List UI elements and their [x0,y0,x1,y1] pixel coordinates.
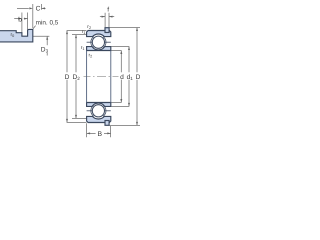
svg-text:D: D [136,74,140,81]
svg-text:D3: D3 [41,46,49,53]
svg-text:d: d [120,74,124,81]
svg-text:min. 0,5: min. 0,5 [36,20,59,27]
svg-text:D2: D2 [73,74,81,81]
svg-text:B: B [98,131,103,138]
svg-text:D: D [65,74,70,81]
svg-text:r2: r2 [87,24,91,30]
svg-text:b: b [18,16,22,23]
svg-text:C: C [36,6,41,13]
svg-text:r1: r1 [81,45,85,51]
svg-text:d1: d1 [127,74,134,81]
svg-text:r1: r1 [82,29,86,35]
svg-text:r2: r2 [89,53,93,59]
svg-text:f: f [107,7,109,14]
